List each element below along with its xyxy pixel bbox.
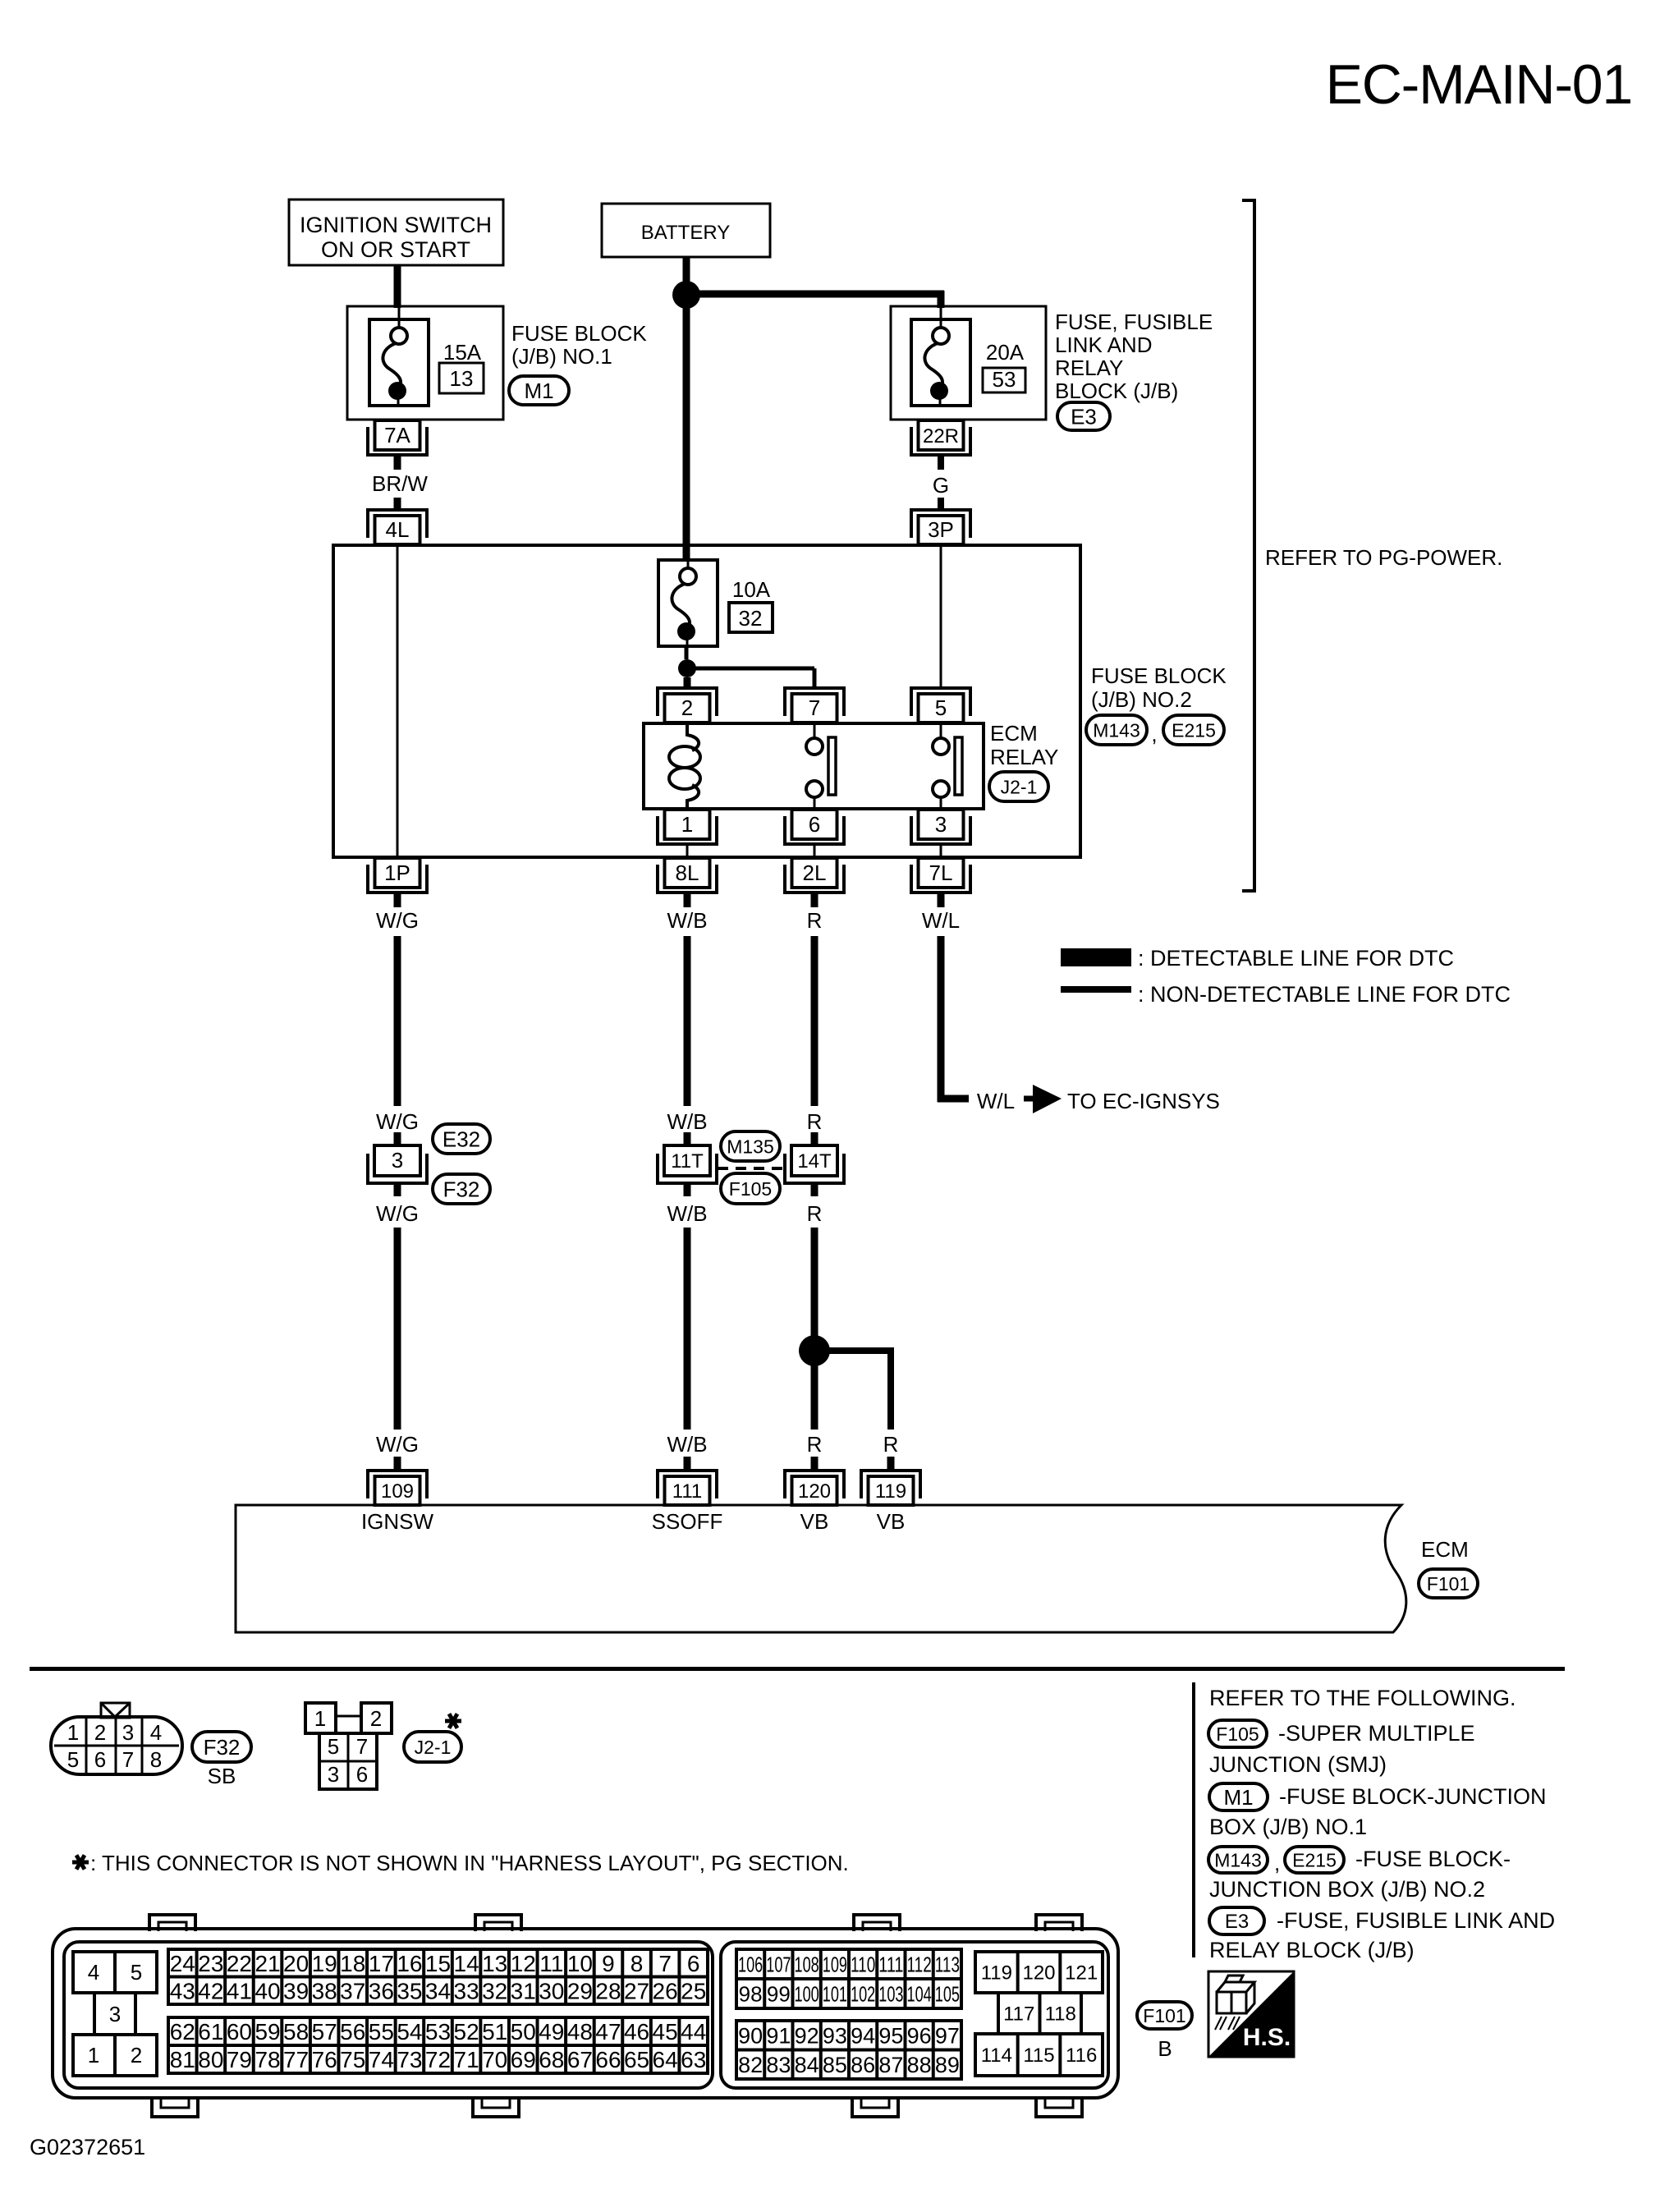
svg-text:7: 7 [122,1747,134,1772]
svg-text:F105: F105 [729,1178,772,1200]
svg-text:48: 48 [567,2019,593,2044]
relay pin 5 connector [911,688,970,723]
svg-text:51: 51 [482,2019,507,2044]
connector 1P [368,858,427,893]
value label 10A [732,577,771,602]
svg-text:67: 67 [567,2047,593,2072]
svg-text:3: 3 [392,1148,403,1173]
svg-text:R: R [807,908,823,933]
svg-text:W/G: W/G [376,1201,419,1226]
pin label IGNSW [361,1509,434,1534]
connector 120 [785,1471,844,1505]
svg-text:W/L: W/L [977,1089,1015,1113]
svg-text:E215: E215 [1292,1849,1337,1870]
wire label W/L row1 [922,908,960,933]
ECM connector bottom tab 2 [473,2096,519,2117]
svg-text:1P: 1P [384,860,410,885]
svg-text:5: 5 [935,695,947,720]
svg-text:64: 64 [653,2047,678,2072]
svg-text:111: 111 [878,1952,903,1976]
ECM connector pin grid 24-6 / 43-25 [168,1949,708,2004]
svg-text:11: 11 [539,1951,563,1976]
svg-text:F101: F101 [1143,2005,1185,2026]
pin label VB left [800,1509,829,1534]
svg-text:14T: 14T [797,1150,832,1173]
connector E3 oval in list [1209,1907,1264,1934]
wire stub below 7L [938,893,945,907]
svg-text:37: 37 [340,1978,365,2003]
svg-text:65: 65 [624,2047,649,2072]
svg-text:22R: 22R [923,425,959,447]
svg-text:W/B: W/B [667,1201,707,1226]
svg-text:FUSE BLOCK: FUSE BLOCK [511,321,647,346]
svg-text:1: 1 [314,1706,326,1731]
svg-text:LINK AND: LINK AND [1055,333,1153,357]
svg-text:12: 12 [511,1951,536,1976]
wire label R row4 left [807,1432,823,1457]
svg-text:G02372651: G02372651 [30,2135,145,2159]
wire R branch to 119 [823,1347,891,1430]
bracket: refer to PG-POWER [1242,200,1254,891]
ECM connector pin grid 90-97 / 82-89 [736,2021,961,2079]
wire: junction branch to relay pin 7 [695,668,814,690]
wire W/G segment 2 [394,1228,401,1430]
svg-text:89: 89 [935,2053,960,2077]
connector M1 oval [509,376,569,405]
svg-text:19: 19 [312,1951,337,1976]
svg-text:94: 94 [851,2023,875,2048]
svg-text:M135: M135 [727,1136,774,1157]
svg-text:2: 2 [94,1720,106,1745]
arrow to EC-IGNSYS [1024,1085,1062,1113]
svg-text:VB: VB [877,1509,906,1534]
svg-text:IGNSW: IGNSW [361,1509,434,1534]
svg-text:E32: E32 [443,1127,480,1151]
svg-text:38: 38 [312,1978,337,2003]
svg-text:119: 119 [981,1962,1012,1985]
ECM box [236,1505,1406,1632]
svg-text:84: 84 [795,2053,819,2077]
connector 7L [911,858,970,893]
svg-text:102: 102 [851,1981,875,2006]
svg-text:87: 87 [878,2053,903,2077]
ECM connector pins 1 2 [73,2035,157,2076]
svg-text:114: 114 [981,2044,1012,2067]
svg-text:F32: F32 [443,1177,480,1201]
fuse 15A block outer box (fuse block J/B No.1) [347,306,503,420]
connector F105 oval in list [1208,1720,1267,1747]
wire label G [933,473,949,498]
value label 15A [443,340,482,365]
value label 20A [986,340,1025,365]
relay contact pins 5-3 [933,723,962,809]
svg-text:2L: 2L [803,860,827,885]
svg-text:96: 96 [907,2023,932,2048]
svg-text:9: 9 [602,1951,615,1976]
divider line for refer list [1192,1682,1195,1957]
wire stub above 120 [811,1457,819,1471]
legend thick bar [1061,948,1131,966]
svg-text:: THIS CONNECTOR IS NOT SHOWN: : THIS CONNECTOR IS NOT SHOWN IN "HARNES… [90,1851,849,1875]
wire label W/L at arrow [977,1089,1015,1113]
svg-text:6: 6 [94,1747,106,1772]
svg-text:56: 56 [340,2019,365,2044]
connector F105 oval [721,1173,780,1204]
svg-text:31: 31 [511,1978,536,2003]
svg-text:58: 58 [283,2019,309,2044]
label FUSE FUSIBLE LINK AND [1277,1908,1555,1933]
connector J2-1 label oval [404,1732,461,1762]
svg-text:46: 46 [624,2019,649,2044]
svg-text:BATTERY: BATTERY [641,222,730,244]
svg-text:112: 112 [907,1952,932,1976]
svg-text:1: 1 [67,1720,79,1745]
wire stub above 109 [394,1457,401,1471]
svg-text:4: 4 [88,1960,99,1985]
fuse number box 13 [439,363,484,393]
wire W/B segment 2 [684,1228,691,1430]
svg-text:M1: M1 [1223,1785,1253,1810]
svg-text:2: 2 [131,2043,142,2067]
ECM connector pin grid 106-113 / 98-105 [736,1949,961,2008]
relay pin 7 connector [785,688,844,723]
svg-text:W/B: W/B [667,1109,707,1134]
wire label W/G row1 [376,908,419,933]
svg-text:IGNITION SWITCH: IGNITION SWITCH [300,213,492,237]
svg-text:93: 93 [823,2023,847,2048]
svg-text:ECM: ECM [990,721,1038,746]
svg-text:BOX (J/B) NO.1: BOX (J/B) NO.1 [1209,1815,1367,1839]
svg-text:7A: 7A [384,423,410,447]
wire stub above connector 14T [811,1132,819,1145]
wire: relay pin 3 to 7L [940,845,942,857]
svg-text:66: 66 [595,2047,621,2072]
wire: battery down to junction [683,257,690,295]
svg-text:76: 76 [312,2047,337,2072]
svg-text:18: 18 [340,1951,365,1976]
label ECM RELAY [990,721,1058,769]
svg-text:110: 110 [851,1952,875,1976]
connector E215 oval [1163,715,1224,745]
connector M143 oval in list [1208,1847,1268,1873]
svg-text:3: 3 [328,1762,339,1787]
wire: 4L to 1P inside fuse block No.2 [397,545,399,857]
svg-text:3: 3 [122,1720,134,1745]
svg-text:57: 57 [312,2019,337,2044]
svg-text:F32: F32 [204,1735,241,1760]
svg-text:F101: F101 [1427,1573,1470,1595]
svg-text:-FUSE, FUSIBLE LINK AND: -FUSE, FUSIBLE LINK AND [1277,1908,1555,1933]
svg-text:60: 60 [227,2019,252,2044]
svg-text:SSOFF: SSOFF [652,1509,723,1534]
label SB [208,1764,236,1788]
wire stub above 3P [938,498,944,511]
svg-text:2: 2 [681,695,693,720]
svg-text:45: 45 [653,2019,678,2044]
svg-text:117: 117 [1003,2003,1034,2026]
connector 7A [368,420,427,455]
connector 109 [368,1471,427,1505]
svg-text:78: 78 [255,2047,280,2072]
svg-text:M143: M143 [1214,1849,1262,1870]
svg-text:116: 116 [1066,2044,1097,2067]
svg-text:53: 53 [993,367,1016,392]
svg-text:14: 14 [454,1951,479,1976]
svg-text:79: 79 [227,2047,252,2072]
svg-text:81: 81 [170,2047,195,2072]
svg-text:FUSE, FUSIBLE: FUSE, FUSIBLE [1055,310,1213,334]
wire label W/B row1 [667,908,707,933]
svg-text:1: 1 [88,2043,99,2067]
wire stub above 111 [684,1457,691,1471]
svg-text:99: 99 [767,1981,791,2006]
label FUSE BLOCK (J/B) NO.2 [1091,663,1227,712]
fuse 20A element [911,305,970,406]
svg-text:80: 80 [198,2047,223,2072]
separator line [30,1667,1565,1671]
svg-text:29: 29 [567,1978,593,2003]
wire stub below connector 14T [811,1183,819,1196]
svg-text:7: 7 [658,1951,672,1976]
svg-text:RELAY: RELAY [1055,356,1123,380]
wire: relay pin 1 to 8L [686,845,689,857]
wire label W/B row4 [667,1432,707,1457]
wire: 3P to relay pin 5 [940,545,942,690]
svg-text:8: 8 [631,1951,644,1976]
svg-text:27: 27 [624,1978,649,2003]
svg-text:70: 70 [482,2047,507,2072]
svg-text:JUNCTION BOX (J/B) NO.2: JUNCTION BOX (J/B) NO.2 [1209,1877,1485,1902]
svg-text:35: 35 [397,1978,422,2003]
svg-text:REFER TO PG-POWER.: REFER TO PG-POWER. [1265,545,1502,570]
svg-text:(J/B) NO.1: (J/B) NO.1 [511,344,612,369]
svg-text:FUSE BLOCK: FUSE BLOCK [1091,663,1227,688]
label ECM [1421,1537,1469,1562]
connector face J2-1 [305,1703,392,1789]
wire stub below 22R [938,456,944,470]
ECM connector housing inner left [64,1942,713,2088]
fuse block (J/B) No.2 outer box [333,545,1080,857]
svg-text:63: 63 [681,2047,706,2072]
ECM connector pins 114 115 116 [975,2034,1103,2076]
note: connector not shown in harness layout [72,1851,849,1875]
svg-text:32: 32 [482,1978,507,2003]
box: BATTERY [602,204,770,257]
label REFER TO THE FOLLOWING. [1209,1686,1516,1710]
connector E3 oval [1057,402,1110,430]
svg-text:97: 97 [935,2023,960,2048]
connector M135 oval [721,1131,780,1161]
wire stub above connector 3 [394,1132,401,1145]
ECM relay box [644,723,984,809]
svg-text:E3: E3 [1225,1911,1249,1933]
svg-text:120: 120 [798,1480,831,1503]
svg-text:: DETECTABLE LINE FOR DTC: : DETECTABLE LINE FOR DTC [1138,946,1454,971]
junction dot on R wire [799,1335,830,1366]
ECM connector bottom tab 3 [852,2096,898,2117]
svg-text:EC-MAIN-01: EC-MAIN-01 [1326,53,1632,116]
svg-text:3: 3 [935,812,947,837]
ECM connector bottom tab 1 [152,2096,198,2117]
ECM connector housing outer [53,1929,1118,2098]
svg-text:77: 77 [283,2047,309,2072]
connector 3 (E32/F32) [368,1145,427,1183]
svg-text:62: 62 [170,2019,195,2044]
svg-text:10: 10 [567,1951,593,1976]
svg-text:2: 2 [370,1706,382,1731]
label SUPER MULTIPLE [1278,1721,1475,1746]
svg-text:98: 98 [739,1981,763,2006]
svg-text:6: 6 [809,812,820,837]
svg-text:101: 101 [823,1981,847,2006]
connector 22R [911,420,970,455]
svg-text:20A: 20A [986,340,1025,365]
label JUNCTION BOX (J/B) NO.2 [1209,1877,1485,1902]
label FUSE BLOCK- [1355,1847,1511,1871]
legend text non-detectable [1138,982,1511,1007]
asterisk mark on J2-1 [445,1714,461,1728]
legend thin bar [1061,986,1131,993]
connector face F32 (8-pin) [51,1703,182,1774]
svg-text:5: 5 [67,1747,79,1772]
svg-text:25: 25 [681,1978,706,2003]
pin label SSOFF [652,1509,723,1534]
svg-text:6: 6 [687,1951,700,1976]
wire label BR/W [372,471,428,496]
svg-text:7L: 7L [929,860,953,885]
svg-text:SB: SB [208,1764,236,1788]
svg-text:R: R [883,1432,899,1457]
svg-text:13: 13 [482,1951,507,1976]
ECM connector pin 3 cell [94,1993,135,2035]
svg-text:(J/B) NO.2: (J/B) NO.2 [1091,687,1192,712]
svg-text:TO EC-IGNSYS: TO EC-IGNSYS [1067,1089,1220,1113]
svg-text:13: 13 [450,366,474,391]
svg-text:83: 83 [766,2053,791,2077]
svg-text:106: 106 [738,1952,763,1976]
connector M143 oval [1086,715,1147,745]
junction dot below 10A fuse [678,659,696,677]
svg-text:118: 118 [1045,2003,1076,2026]
svg-text:ON OR START: ON OR START [321,237,470,262]
connector F101 oval at ECM face [1137,2002,1192,2029]
svg-text:RELAY: RELAY [990,745,1058,769]
connector 119 [861,1471,920,1505]
connector J2-1 oval [989,772,1048,801]
connector F32 label oval [192,1732,251,1762]
wire stub below 7A [394,456,401,470]
svg-text:5: 5 [131,1960,142,1985]
svg-text:69: 69 [511,2047,536,2072]
fuse number box 53 [983,367,1025,392]
wire label W/B row3 [667,1201,707,1226]
svg-text:113: 113 [935,1952,960,1976]
svg-text:26: 26 [653,1978,678,2003]
svg-text:8: 8 [150,1747,162,1772]
svg-text:95: 95 [878,2023,903,2048]
svg-text:120: 120 [1022,1962,1055,1985]
svg-text:E215: E215 [1172,719,1216,741]
H.S. hand symbol [1208,1971,1294,2057]
svg-text:55: 55 [369,2019,394,2044]
svg-text:,: , [1274,1851,1280,1875]
svg-text:92: 92 [795,2023,819,2048]
fuse 15A element [369,305,429,406]
label FUSE, FUSIBLE LINK AND RELAY BLOCK (J/B) [1055,310,1213,403]
wire stub below connector 3 [394,1183,401,1196]
svg-text:40: 40 [255,1978,280,2003]
svg-text:: NON-DETECTABLE LINE FOR DTC: : NON-DETECTABLE LINE FOR DTC [1138,982,1511,1007]
svg-text:3: 3 [109,2002,121,2026]
svg-text:43: 43 [170,1978,195,2003]
wire label R row4 right [883,1432,899,1457]
wire label W/G row3 [376,1201,419,1226]
svg-text:72: 72 [425,2047,451,2072]
svg-text:36: 36 [369,1978,394,2003]
ECM connector pins 117 118 [998,1993,1081,2034]
svg-text:75: 75 [340,2047,365,2072]
relay pin 6 connector [785,810,844,844]
comma separator [1151,722,1157,746]
ECM connector top tab 1 [149,1915,195,1931]
svg-text:91: 91 [766,2023,791,2048]
svg-text:3P: 3P [928,517,954,542]
relay pin 2 connector [658,688,717,723]
svg-text:15A: 15A [443,340,482,365]
ECM connector pins 4 5 [73,1952,157,1993]
svg-text:10A: 10A [732,577,771,602]
svg-text:W/B: W/B [667,1432,707,1457]
svg-text:86: 86 [851,2053,875,2077]
connector 14T [785,1145,844,1183]
svg-text:90: 90 [738,2023,763,2048]
svg-text:R: R [807,1201,823,1226]
connector F101 oval [1419,1569,1478,1598]
svg-text:W/G: W/G [376,1109,419,1134]
connector 111 [658,1471,717,1505]
box: IGNITION SWITCH ON OR START [289,200,503,265]
label RELAY BLOCK (J/B) [1209,1938,1415,1962]
svg-text:104: 104 [907,1981,932,2006]
label FUSE BLOCK (J/B) NO.1 [511,321,647,369]
wire label W/B row2 [667,1109,707,1134]
svg-text:44: 44 [681,2019,706,2044]
label B [1158,2036,1172,2061]
svg-text:4: 4 [150,1720,162,1745]
wire: battery junction to fuse 20A (horizontal) [686,291,944,308]
svg-text:M1: M1 [524,379,553,403]
legend text detectable [1138,946,1454,971]
svg-text:8L: 8L [676,860,699,885]
connector E32 oval [433,1124,490,1154]
svg-text:-FUSE BLOCK-JUNCTION: -FUSE BLOCK-JUNCTION [1279,1784,1547,1809]
svg-text:88: 88 [907,2053,932,2077]
svg-text:109: 109 [823,1952,847,1976]
svg-text:F105: F105 [1216,1723,1259,1745]
wire: ignition switch to fuse 15A [394,265,401,308]
svg-text:85: 85 [823,2053,847,2077]
svg-text:W/L: W/L [922,908,960,933]
svg-text:52: 52 [454,2019,479,2044]
comma in list [1274,1851,1280,1875]
wire W/G segment 1 [394,936,401,1106]
svg-text:28: 28 [595,1978,621,2003]
wire stub below 1P [394,893,401,907]
svg-text:7: 7 [356,1734,368,1759]
svg-text:11T: 11T [671,1150,704,1173]
wire stub below 2L [811,893,819,907]
relay coil [669,723,700,809]
